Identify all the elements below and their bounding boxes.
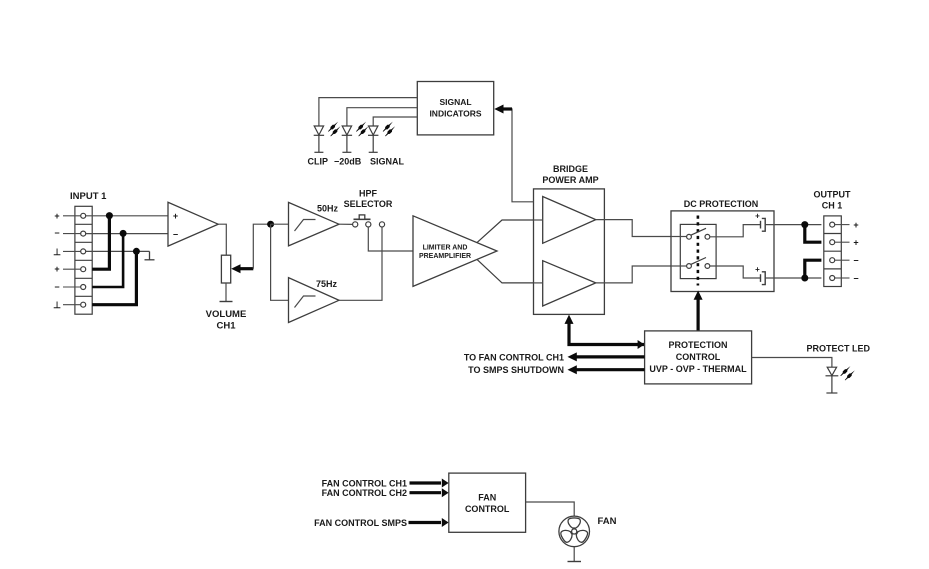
svg-text:SIGNAL: SIGNAL — [439, 97, 471, 107]
wire: K1a to capacitor C1 — [710, 225, 760, 237]
output node dot top — [801, 221, 808, 228]
wire: U5a output to DC protection — [596, 220, 671, 237]
svg-text:PREAMPLIFIER: PREAMPLIFIER — [419, 253, 471, 260]
wire: U4 output upper branch to bridge amp — [477, 220, 534, 243]
svg-text:75Hz: 75Hz — [316, 279, 338, 289]
U3 filter curve — [295, 296, 316, 308]
wire: J1 pin2 to op-amp - input — [86, 233, 168, 235]
U2 filter curve — [295, 220, 316, 232]
wire: input to U5b — [534, 282, 543, 284]
J2 pin labels — [853, 220, 858, 284]
wire: U2 output to SW1 pin1 — [339, 223, 353, 225]
75Hz HPF amp U3 — [289, 278, 340, 323]
svg-text:+: + — [755, 212, 760, 221]
svg-text:TO SMPS SHUTDOWN: TO SMPS SHUTDOWN — [468, 365, 564, 375]
svg-text:PROTECT LED: PROTECT LED — [807, 344, 871, 354]
thick arrow: protection control to bridge amp (corner path) — [565, 315, 645, 349]
svg-text:⊥: ⊥ — [53, 247, 61, 257]
relay actuation dashed line — [697, 216, 700, 286]
wire: box to -20dB led — [347, 108, 417, 126]
svg-text:LIMITER AND: LIMITER AND — [423, 245, 468, 252]
wire: bridge amp tap to signal indicators — [503, 109, 534, 202]
ground symbol fan — [568, 561, 582, 563]
arrow: FAN CONTROL CH1 (thick, points right) — [410, 479, 449, 488]
amp U5b — [543, 261, 596, 306]
arrow: TO SMPS SHUTDOWN (thick, points left) — [568, 365, 645, 374]
node dot pin1 — [106, 212, 113, 219]
svg-text:−20dB: −20dB — [334, 157, 362, 167]
FAN CONTROL box — [449, 473, 526, 532]
DC protection inner box (relay) — [680, 224, 716, 278]
wire: fan control to fan — [526, 502, 575, 516]
wire: U4 output lower branch to bridge amp — [477, 259, 534, 283]
svg-text:CH 1: CH 1 — [822, 201, 843, 211]
wire: C1 to output — [765, 224, 821, 226]
thick arrow: protection control to DC protection — [694, 291, 703, 331]
svg-text:+: + — [853, 220, 858, 230]
wire into relay contact K1a — [671, 236, 686, 238]
svg-text:FAN: FAN — [478, 493, 496, 503]
wire: VR1 bottom to ground — [225, 283, 227, 301]
svg-text:HPF: HPF — [359, 189, 378, 199]
wire: SW1 common to limiter — [368, 227, 413, 251]
wire: input to U5a — [534, 219, 543, 221]
capacitor C1 (polarized) — [761, 218, 766, 231]
svg-text:CLIP: CLIP — [308, 157, 329, 167]
svg-text:FAN CONTROL CH1: FAN CONTROL CH1 — [322, 479, 407, 489]
jumper: output + to terminal 2 (thick) — [805, 225, 822, 243]
wire: box to SIGNAL led — [373, 117, 417, 126]
D1 light arrows — [328, 122, 340, 137]
J1 left stub wires — [63, 216, 81, 305]
wire: C2 to output — [765, 277, 821, 279]
node A (HPF input junction) — [267, 221, 274, 228]
wire: protection control to protect LED — [752, 358, 832, 368]
capacitor C2 (polarized) — [761, 272, 766, 285]
SIGNAL INDICATORS box — [417, 82, 493, 135]
jumper: output - to terminal 3 (thick) — [805, 260, 822, 278]
arrow: TO FAN CONTROL CH1 (thick, points left) — [568, 352, 645, 361]
fan M1 — [559, 516, 590, 547]
D3 light arrows — [383, 122, 395, 137]
svg-text:CONTROL: CONTROL — [465, 504, 510, 514]
switch SW1 HPF selector — [339, 215, 385, 227]
wire: box to CLIP led — [319, 98, 417, 126]
LED D4 PROTECT — [826, 367, 839, 393]
arrow: FAN CONTROL CH2 (thick, points right) — [410, 488, 449, 497]
arrow: FAN CONTROL SMPS (thick, points right) — [409, 518, 449, 527]
svg-text:UVP - OVP - THERMAL: UVP - OVP - THERMAL — [649, 364, 747, 374]
svg-text:VOLUME: VOLUME — [206, 309, 247, 320]
LED D3 SIGNAL — [368, 126, 378, 152]
svg-text:INPUT 1: INPUT 1 — [70, 191, 107, 202]
terminal block J1 (INPUT 1) — [75, 206, 92, 314]
svg-text:TO FAN CONTROL CH1: TO FAN CONTROL CH1 — [464, 353, 564, 363]
potentiometer VR1 VOLUME CH1 — [221, 255, 230, 283]
svg-text:SELECTOR: SELECTOR — [344, 199, 393, 209]
svg-text:⊥: ⊥ — [53, 300, 61, 310]
wire: U5b output to DC protection — [596, 266, 671, 283]
svg-text:+: + — [54, 264, 59, 274]
svg-text:CH1: CH1 — [216, 321, 236, 332]
LED D2 -20dB — [342, 126, 352, 152]
svg-text:CONTROL: CONTROL — [676, 352, 721, 362]
terminal block J2 (OUTPUT CH 1) — [824, 216, 842, 287]
amp U5a — [543, 197, 596, 244]
op-amp U1 input buffer — [168, 202, 218, 246]
svg-text:INDICATORS: INDICATORS — [429, 109, 481, 119]
svg-text:−: − — [54, 228, 59, 238]
svg-text:FAN: FAN — [598, 516, 617, 527]
output node dot bottom — [801, 275, 808, 282]
wire: U1 output to volume pot — [218, 224, 226, 255]
node dot pin3 — [133, 248, 140, 255]
50Hz HPF amp U2 — [289, 202, 340, 246]
jumper wire pin1-pin4 (thick) — [92, 216, 109, 269]
PROTECTION CONTROL box — [645, 331, 752, 384]
D4 light arrows — [840, 366, 854, 380]
svg-text:FAN CONTROL SMPS: FAN CONTROL SMPS — [314, 518, 407, 528]
relay contact K1a — [687, 228, 710, 239]
wire: J1 pin3 to ground — [86, 250, 150, 252]
DC protection outer box — [671, 211, 774, 292]
wire: VR1 wiper to HPF node — [253, 224, 270, 269]
svg-text:FAN CONTROL CH2: FAN CONTROL CH2 — [322, 488, 407, 498]
bridge power amp box — [534, 189, 605, 315]
jumper wire pin2-pin5 (thick) — [92, 234, 123, 287]
SW1 button bar — [354, 218, 371, 220]
svg-text:−: − — [853, 256, 858, 266]
svg-text:−: − — [173, 230, 178, 240]
LED D1 CLIP — [314, 126, 324, 152]
wire: K1b to capacitor C2 — [710, 266, 760, 278]
J1 pin labels — [53, 211, 61, 310]
wire: node A down to 75Hz filter — [271, 224, 289, 300]
wire: fan to ground — [573, 547, 575, 561]
svg-text:SIGNAL: SIGNAL — [370, 157, 405, 167]
svg-text:PROTECTION: PROTECTION — [668, 340, 727, 350]
svg-text:BRIDGE: BRIDGE — [553, 164, 588, 174]
svg-text:POWER AMP: POWER AMP — [542, 175, 598, 185]
node dot pin2 — [120, 230, 127, 237]
jumper wire pin3-pin6 (thick) — [92, 251, 136, 304]
arrow into signal indicators box — [494, 105, 512, 114]
svg-text:50Hz: 50Hz — [317, 204, 339, 214]
svg-text:+: + — [853, 238, 858, 248]
limiter/preamp U4 — [413, 216, 497, 287]
D2 light arrows — [356, 122, 368, 137]
wire into relay contact K1b — [671, 265, 686, 267]
svg-text:OUTPUT: OUTPUT — [814, 190, 852, 200]
svg-text:+: + — [54, 211, 59, 221]
ground symbol near J1 — [145, 251, 155, 259]
svg-text:+: + — [755, 265, 760, 274]
wire: SW1 pin3 to U3 output — [339, 227, 382, 300]
svg-text:DC PROTECTION: DC PROTECTION — [684, 199, 759, 209]
svg-text:−: − — [54, 282, 59, 292]
wire: J1 pin1 to op-amp + input — [86, 215, 168, 217]
VR1 wiper arrow (thick) — [231, 264, 253, 273]
ground symbol VR1 — [220, 301, 233, 303]
svg-text:−: − — [853, 274, 858, 284]
svg-text:+: + — [173, 211, 178, 221]
relay contact K1b — [687, 258, 710, 269]
wire: node A to 50Hz filter — [271, 223, 289, 225]
J2 right stubs — [835, 225, 850, 278]
